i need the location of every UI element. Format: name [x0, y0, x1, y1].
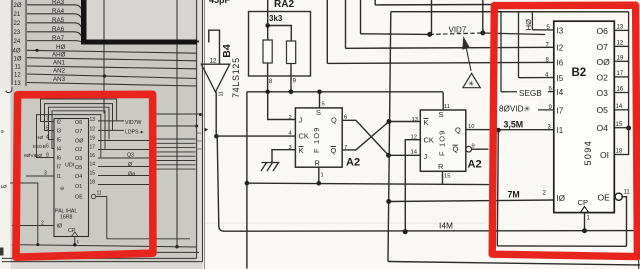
- svg-text:9: 9: [472, 144, 475, 150]
- wire O-row 17: [98, 149, 149, 151]
- wire FF2 Q to 3,5M net: [466, 129, 554, 131]
- svg-text:16: 16: [617, 87, 624, 93]
- svg-text:R: R: [438, 162, 443, 171]
- svg-text:6: 6: [46, 143, 49, 149]
- svg-text:11: 11: [15, 64, 22, 70]
- wire AN2 row: [27, 74, 197, 79]
- svg-text:8ØVID✳: 8ØVID✳: [499, 105, 531, 114]
- svg-text:OØ: OØ: [75, 138, 84, 144]
- wire corner net VID7 solid left: [361, 0, 430, 34]
- FF1 pin numbers: [289, 102, 348, 179]
- svg-text:S: S: [439, 110, 444, 119]
- wire corner net y63 to I6: [327, 0, 554, 63]
- B2 right pin numbers: [616, 25, 631, 196]
- svg-text:IØ: IØ: [57, 224, 63, 230]
- wire vertical to I3 row: [532, 12, 553, 30]
- svg-text:4: 4: [46, 134, 49, 140]
- svg-text:7: 7: [46, 116, 49, 122]
- junction dot VID7 b: [480, 30, 485, 35]
- svg-text:3,5M: 3,5M: [504, 120, 524, 130]
- svg-text:O4: O4: [75, 174, 82, 180]
- svg-text:Øø: Øø: [128, 171, 136, 177]
- overbars K and Qbar FF1: [299, 146, 336, 148]
- wire O5 stub: [614, 109, 628, 111]
- svg-text:11: 11: [218, 91, 224, 96]
- svg-text:Q: Q: [331, 116, 337, 125]
- svg-text:11: 11: [444, 104, 450, 110]
- wire UD1 pin6 wrap to row17: [52, 111, 105, 149]
- FF2 Qbar bubble: [466, 146, 472, 152]
- svg-text:A2: A2: [468, 158, 482, 170]
- divider edge stubs: [196, 133, 202, 149]
- wire CP down: [584, 213, 586, 231]
- svg-text:18: 18: [90, 179, 96, 185]
- svg-text:23: 23: [14, 30, 21, 36]
- svg-text:15: 15: [616, 122, 623, 128]
- svg-text:24: 24: [14, 39, 21, 45]
- wire HØ row: [27, 50, 197, 53]
- svg-text:IØ: IØ: [557, 194, 565, 203]
- wire right O-bus vertical: [628, 12, 630, 155]
- wire O-row 19: [98, 140, 149, 142]
- svg-text:A2: A2: [346, 157, 360, 169]
- right side labels VID7W / LDPS / Q3: [125, 120, 143, 177]
- left pin numbers column: [13, 3, 22, 87]
- wire FF2 CK from 14M: [405, 140, 420, 232]
- junction dot RA2 tee: [265, 23, 270, 28]
- svg-text:B2: B2: [572, 67, 587, 79]
- junction dot HØ row: [35, 49, 38, 52]
- svg-text:HØ: HØ: [56, 44, 65, 51]
- junction dot CP/14M: [582, 228, 587, 233]
- wire VID7W row: [98, 120, 124, 122]
- svg-text:14: 14: [411, 150, 418, 156]
- FF2 pin numbers: [411, 104, 475, 180]
- svg-text:O4: O4: [597, 123, 609, 133]
- svg-text:Q3: Q3: [127, 153, 134, 159]
- middle/right white panel background: [203, 0, 640, 269]
- bottom light strip of gray panel: [11, 263, 203, 269]
- svg-text:17: 17: [90, 144, 96, 150]
- svg-text:AN1: AN1: [53, 60, 66, 67]
- svg-text:O6: O6: [75, 120, 82, 126]
- svg-text:R: R: [315, 158, 320, 167]
- wire O-row 14: [98, 166, 149, 168]
- svg-text:5: 5: [46, 125, 49, 131]
- svg-text:4Ø: 4Ø: [13, 49, 21, 55]
- wire UD1 pin5 wrap to row12: [45, 104, 113, 131]
- wire RA2 internal tee: [268, 26, 292, 42]
- svg-text:J: J: [424, 152, 428, 161]
- SEGB label: [517, 87, 548, 98]
- wire vertical feed to VID7 dot2: [482, 0, 484, 33]
- junction dot pin9/S line: [289, 90, 294, 95]
- svg-text:VID7: VID7: [449, 25, 467, 34]
- svg-text:3: 3: [44, 171, 47, 177]
- B2 input labels: [557, 27, 565, 203]
- star triangle symbol: [463, 73, 480, 87]
- wire FF2 Qbar stub: [471, 148, 488, 150]
- wire UD1 pin2 row: [12, 225, 54, 227]
- svg-text:RA4: RA4: [52, 8, 65, 15]
- svg-text:I5: I5: [557, 74, 564, 83]
- wire RA2 pin9 down: [290, 64, 292, 92]
- bus ripper RA6: [27, 32, 82, 39]
- svg-text:RA6: RA6: [52, 26, 65, 33]
- svg-text:Øˊ: Øˊ: [128, 162, 134, 168]
- bus ripper RA5: [27, 23, 82, 30]
- svg-text:11: 11: [624, 189, 631, 195]
- junction dot 14M/CK2: [403, 229, 408, 234]
- wire O4 stub: [614, 127, 628, 129]
- junction dot FF1 S: [317, 90, 322, 95]
- svg-text:⊖: ⊖: [60, 186, 64, 192]
- wire vertical feed to VID7 dot: [431, 0, 433, 34]
- wire OE net: [497, 130, 626, 246]
- wire 1Ø row to V37.8: [10, 183, 38, 245]
- UD1 pin texts: [41, 116, 102, 226]
- svg-text:I7: I7: [557, 106, 564, 115]
- svg-text:2Ø: 2Ø: [14, 3, 22, 9]
- wire O6 stub: [614, 29, 628, 31]
- svg-text:I3: I3: [557, 27, 564, 36]
- svg-text:O2: O2: [597, 72, 609, 82]
- 8ØVID label: [496, 102, 538, 114]
- wire AHØ row: [27, 58, 197, 61]
- wire O3 stub: [614, 92, 628, 94]
- svg-text:K: K: [299, 146, 304, 155]
- svg-text:OE: OE: [75, 195, 83, 201]
- svg-text:I1: I1: [557, 126, 564, 135]
- junction dot row x200: [199, 113, 202, 116]
- sheet border inner vertical: [196, 0, 198, 259]
- wire row 252: [150, 251, 199, 253]
- svg-text:I7: I7: [57, 165, 62, 171]
- wire B4 input: [209, 30, 220, 64]
- wire AN1 row: [27, 66, 197, 69]
- svg-text:16: 16: [90, 153, 96, 159]
- svg-text:14: 14: [90, 161, 96, 167]
- arrow from star to VID7: [466, 48, 471, 71]
- junction dot 3,5M: [496, 128, 501, 133]
- junction dot VID7 a: [427, 32, 432, 37]
- svg-text:SEGB: SEGB: [519, 89, 542, 98]
- svg-text:O7: O7: [75, 129, 82, 135]
- wire 7M net: [389, 200, 554, 202]
- left edge hook mark: [6, 87, 12, 93]
- VID7 dashed segment: [430, 33, 483, 34]
- UD1 clock triangle: [72, 232, 79, 237]
- svg-text:3k3: 3k3: [269, 14, 283, 23]
- wire O-row 16 Q3: [98, 157, 149, 159]
- svg-text:OE: OE: [598, 192, 611, 202]
- right sheet edge vertical: [638, 243, 640, 269]
- svg-text:I4M: I4M: [439, 221, 453, 231]
- svg-text:13: 13: [14, 81, 21, 87]
- wire B4 out to FF1 CK: [216, 135, 295, 137]
- junction dot x177 bottom: [175, 245, 178, 248]
- svg-text:OI: OI: [600, 150, 609, 160]
- wire UD1 CP down: [74, 237, 76, 245]
- B2 output labels: [597, 26, 611, 203]
- svg-text:8: 8: [269, 78, 273, 85]
- wire pin8 to J: [268, 92, 296, 120]
- wire into RA2 from top: [267, 0, 269, 40]
- divider arrow marker: [205, 128, 209, 132]
- junction dot R line FF1: [317, 181, 322, 186]
- svg-text:SEGB: SEGB: [33, 144, 46, 150]
- svg-text:F 1O9: F 1O9: [438, 129, 447, 156]
- svg-text:✳: ✳: [468, 79, 475, 88]
- svg-text:VID7W: VID7W: [125, 120, 142, 126]
- svg-text:CP: CP: [578, 198, 589, 207]
- thick black bus bar vertical: [81, 0, 87, 44]
- thick black bus bar horizontal: [81, 40, 197, 45]
- svg-text:1: 1: [77, 239, 80, 244]
- wire R reset net: [247, 167, 490, 184]
- wire Kbar to ground: [272, 150, 295, 163]
- svg-text:I4: I4: [57, 147, 62, 153]
- svg-text:45pF: 45pF: [209, 0, 231, 5]
- svg-text:21: 21: [14, 12, 21, 18]
- svg-text:O2: O2: [75, 147, 82, 153]
- wire O-row 18: [98, 184, 149, 186]
- svg-text:3: 3: [289, 145, 292, 151]
- bus ripper RA4: [27, 14, 82, 21]
- svg-text:15: 15: [90, 170, 96, 176]
- svg-text:Q: Q: [455, 126, 461, 135]
- svg-text:12: 12: [617, 41, 624, 47]
- junction dot K13: [387, 119, 392, 124]
- svg-text:AHØ: AHØ: [52, 51, 66, 58]
- svg-text:7: 7: [344, 145, 347, 151]
- junction dot pin8/S line: [265, 90, 270, 95]
- svg-text:18: 18: [616, 149, 623, 155]
- svg-text:12: 12: [411, 135, 417, 141]
- svg-text:74LS125: 74LS125: [231, 57, 241, 98]
- red highlight frame (left panel): [16, 94, 153, 257]
- wire O-row 15: [98, 175, 149, 177]
- ground (chassis): [261, 163, 280, 172]
- svg-text:AN2: AN2: [53, 68, 66, 75]
- svg-text:I5: I5: [57, 138, 62, 144]
- svg-text:2: 2: [289, 115, 292, 121]
- wire UD1 pin3 row: [26, 175, 54, 177]
- svg-text:8ØVIDØ: 8ØVIDØ: [24, 153, 42, 159]
- wire 8ØVID row: [500, 109, 554, 111]
- svg-text:6: 6: [344, 114, 347, 120]
- overbars K and Qbar FF2: [424, 119, 458, 146]
- svg-text:O3: O3: [597, 88, 609, 98]
- wire VID7 tail inside box: [483, 33, 545, 35]
- svg-text:I4: I4: [557, 88, 564, 97]
- wire vertical to SEGB row: [501, 12, 554, 92]
- flip-flop A2 (first F109): [295, 108, 342, 167]
- svg-text:O5: O5: [75, 165, 82, 171]
- svg-text:I2: I2: [57, 120, 62, 126]
- wire RA2 pin8 down: [267, 63, 269, 92]
- wire B4 output down: [215, 92, 217, 136]
- svg-text:7M: 7M: [508, 189, 520, 199]
- sheet border inner bottom: [2, 257, 197, 259]
- svg-text:19: 19: [617, 55, 624, 61]
- wire LDPS row: [98, 129, 124, 131]
- svg-text:22: 22: [14, 21, 21, 27]
- svg-text:K: K: [424, 118, 429, 127]
- vertical wire x104: [103, 0, 105, 114]
- faint scan streak: [205, 223, 485, 224]
- svg-text:O6: O6: [597, 26, 609, 36]
- svg-text:13: 13: [90, 117, 96, 123]
- svg-text:O1: O1: [75, 184, 82, 190]
- bus ripper RA7: [27, 41, 83, 43]
- left edge bottom mark: [0, 248, 4, 256]
- vertical wire x177: [176, 0, 178, 247]
- svg-text:9: 9: [46, 152, 49, 158]
- svg-text:UDI: UDI: [65, 163, 74, 169]
- svg-text:J: J: [299, 116, 303, 125]
- gray edge tick: [194, 41, 200, 43]
- svg-text:17: 17: [617, 71, 624, 77]
- wire OØ stub: [614, 60, 628, 62]
- svg-text:12: 12: [14, 72, 21, 78]
- svg-text:OØ: OØ: [597, 57, 611, 67]
- svg-text:S: S: [316, 108, 321, 117]
- wire FF1 Qbar diagonal to K13: [342, 122, 420, 150]
- wire rows right of red box: [155, 114, 200, 169]
- bus ripper RA3: [27, 5, 82, 11]
- svg-text:O7: O7: [597, 42, 609, 52]
- red highlight frame (right panel): [492, 5, 637, 256]
- svg-text:1Ø: 1Ø: [14, 56, 22, 62]
- B2 left pin numbers: [543, 25, 591, 221]
- wire 14M net: [217, 136, 640, 231]
- svg-text:I3: I3: [57, 129, 62, 135]
- junction dot J14: [386, 153, 391, 158]
- svg-text:2: 2: [41, 220, 44, 226]
- wire S-net (corner, pullups, FF S pins): [247, 92, 443, 269]
- junction dot 7M: [386, 199, 391, 204]
- junction dot row x196: [195, 125, 198, 128]
- svg-text:12: 12: [90, 126, 96, 132]
- flip-flop A2 (second F109): [420, 110, 466, 171]
- svg-text:AN3: AN3: [53, 76, 66, 83]
- wire UD1 pin9 wrap: [37, 115, 101, 158]
- junction dot AN2 row: [103, 74, 106, 77]
- buffer B4 74LS125: [201, 64, 229, 92]
- svg-text:RA5: RA5: [52, 17, 65, 24]
- wire O7 stub: [614, 45, 628, 47]
- junction dot R line corner: [245, 181, 250, 186]
- svg-text:19: 19: [90, 135, 96, 141]
- svg-text:5094: 5094: [583, 140, 593, 166]
- chip UD1 PAL/HAL 16R8 (mini): [54, 119, 89, 237]
- svg-text:HØ: HØ: [524, 19, 533, 30]
- wire mini 14M row: [12, 245, 197, 247]
- svg-text:5: 5: [322, 102, 325, 108]
- wire: left pin-column borders: [12, 0, 26, 86]
- left pin name labels: [1, 129, 46, 190]
- B2 clock triangle: [580, 206, 588, 212]
- B2 OE bubble: [615, 193, 622, 200]
- resistor pack RA2 box: [249, 12, 311, 77]
- wire O2 stub: [614, 76, 628, 78]
- UD1 OE bubble: [91, 194, 95, 198]
- wire HØ feedback net (y12 + vertical + J/K dots + 7M + y262): [388, 12, 640, 265]
- svg-text:13: 13: [412, 117, 418, 123]
- wire O1 stub: [614, 154, 628, 156]
- svg-text:1Ø: 1Ø: [1, 184, 8, 190]
- wire UD1 pin7 wrap to row13: [41, 99, 117, 122]
- sheet border outer vertical: [202, 0, 204, 262]
- svg-text:I1: I1: [57, 174, 62, 180]
- svg-text:9: 9: [1, 129, 4, 135]
- svg-text:RA7: RA7: [52, 35, 65, 42]
- svg-text:10: 10: [468, 124, 474, 130]
- svg-text:LDPS ●: LDPS ●: [125, 130, 143, 136]
- wire corner net y48 to I2: [346, 0, 554, 48]
- svg-text:12: 12: [210, 58, 217, 65]
- svg-text:HØ: HØ: [36, 135, 43, 141]
- left scanned panel background: [0, 0, 205, 269]
- svg-text:1: 1: [321, 172, 324, 178]
- wire corner net y5: [375, 0, 494, 5]
- panel divider line: [204, 0, 206, 269]
- chip B2 5094: [554, 21, 615, 212]
- resistor R-b: [287, 41, 296, 64]
- svg-text:CP: CP: [68, 228, 76, 234]
- svg-text:O3: O3: [75, 156, 82, 162]
- sheet border outer bottom: [2, 261, 203, 263]
- svg-text:15: 15: [444, 174, 450, 180]
- junction dot B4 out: [214, 134, 219, 139]
- svg-text:CK: CK: [299, 131, 309, 140]
- svg-text:O5: O5: [597, 105, 609, 115]
- svg-text:I2: I2: [557, 44, 564, 53]
- wire UD1 OE out: [96, 197, 190, 239]
- svg-text:13: 13: [617, 25, 624, 31]
- svg-text:11: 11: [97, 190, 102, 196]
- svg-text:RA2: RA2: [274, 0, 294, 10]
- svg-text:16R8: 16R8: [60, 215, 73, 221]
- svg-text:RA3: RA3: [52, 0, 65, 6]
- svg-text:I6: I6: [57, 156, 62, 162]
- wire vertical to I5 row: [519, 12, 554, 78]
- svg-text:14: 14: [616, 104, 623, 110]
- svg-text:CK: CK: [424, 136, 434, 145]
- junction dot V37.8 bottom: [36, 243, 39, 246]
- svg-text:Q: Q: [331, 146, 337, 155]
- wire UD1 pin4 wrap to row19: [49, 107, 110, 139]
- bus labels RA3..RA7: [52, 0, 66, 83]
- svg-text:B4: B4: [221, 44, 233, 58]
- resistor R-a: [263, 40, 272, 63]
- wire FF1 Q diagonal to J14: [342, 120, 420, 155]
- junction dot CP mini: [73, 243, 76, 246]
- svg-text:9: 9: [293, 78, 297, 85]
- junction dot O4 bus: [626, 126, 631, 131]
- svg-text:F 1O9: F 1O9: [312, 126, 321, 153]
- wire AN3 row: [27, 83, 197, 87]
- svg-text:Q: Q: [453, 145, 459, 154]
- svg-text:I6: I6: [557, 59, 564, 68]
